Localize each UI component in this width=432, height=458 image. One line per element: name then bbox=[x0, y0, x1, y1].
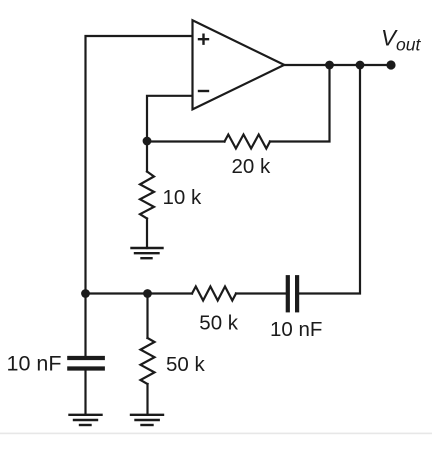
wire bottom rail bbox=[86, 292, 193, 294]
wire op-amp output to Vout terminal bbox=[284, 64, 391, 66]
svg-text:Vout: Vout bbox=[381, 25, 421, 54]
resistor R 10 k bbox=[140, 172, 154, 219]
resistor R 50 k shunt bbox=[141, 338, 155, 384]
op-amp U1 bbox=[193, 20, 285, 109]
svg-text:20 k: 20 k bbox=[232, 155, 271, 178]
ground under 50 k shunt bbox=[131, 415, 163, 425]
resistor R 50 k horizontal bbox=[192, 287, 236, 301]
wire node to 10k bbox=[146, 142, 148, 172]
node bottom rail left junction bbox=[81, 289, 90, 298]
wire node to 50k shunt bbox=[146, 294, 148, 339]
node feedback junction bbox=[143, 137, 152, 146]
svg-text:10 k: 10 k bbox=[163, 186, 202, 209]
wire feedback node to 20k bbox=[147, 140, 225, 142]
wire 50k to capacitor bbox=[236, 292, 286, 294]
wire left rail down to capacitor bbox=[84, 294, 86, 357]
svg-text:10 nF: 10 nF bbox=[7, 352, 62, 376]
node Vout terminal bbox=[386, 60, 395, 69]
wire 10k to ground bbox=[146, 219, 148, 249]
svg-text:10 nF: 10 nF bbox=[270, 318, 322, 341]
ground under left capacitor bbox=[70, 415, 102, 425]
wire capacitor to ground bbox=[84, 371, 86, 415]
capacitor C 10 nF shunt bbox=[69, 358, 103, 369]
wire noninverting input to left rail bbox=[86, 36, 193, 294]
ground under 10 k bbox=[132, 248, 163, 258]
node output junction A bbox=[325, 61, 334, 70]
wire 20k to output node bbox=[270, 65, 330, 142]
wire inverting input bbox=[147, 96, 193, 141]
node output junction B bbox=[356, 61, 365, 70]
node bottom rail mid junction bbox=[143, 289, 152, 298]
wire 50k shunt to ground bbox=[146, 384, 148, 415]
capacitor C 10 nF series bbox=[288, 277, 297, 310]
svg-text:50 k: 50 k bbox=[166, 353, 205, 376]
wire output node down to RC branch bbox=[299, 65, 360, 294]
svg-text:50 k: 50 k bbox=[199, 312, 238, 335]
resistor R 20 k bbox=[225, 135, 271, 149]
separator rule bbox=[0, 433, 432, 435]
